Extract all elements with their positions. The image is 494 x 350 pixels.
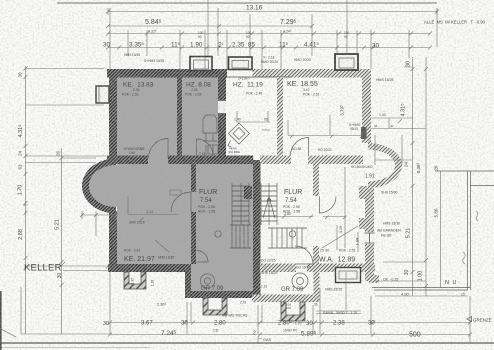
chimney box 1	[190, 57, 212, 71]
border top	[57, 2, 437, 4]
pencil scribble 1	[476, 211, 478, 221]
door arc KE18	[291, 138, 309, 156]
sump circle annex-left	[200, 274, 214, 288]
door arc to annex-left	[197, 251, 209, 263]
wall west upper	[109, 77, 117, 160]
border bottom faint	[0, 347, 150, 349]
wall annex-left west	[185, 272, 191, 298]
dim top line 4	[106, 46, 432, 50]
wall top north right house	[253, 69, 372, 78]
room GR 7.09 left gray fill	[191, 264, 254, 292]
interior thin lines KE18 dim	[288, 115, 364, 138]
stairs right house lower	[268, 228, 307, 248]
wall east lower right house	[365, 188, 374, 281]
wall party lower	[253, 160, 261, 298]
page edge left	[0, 291, 2, 350]
wall mid horizontal west segment	[107, 156, 148, 165]
dim horizontals right	[371, 67, 468, 296]
newel circle left	[215, 231, 221, 237]
wall south corridor segment	[260, 264, 296, 273]
tank diamond HZ 11.19	[228, 123, 250, 147]
newel circle right	[289, 231, 295, 237]
WA interior dims	[322, 167, 358, 310]
room FLUR/KE 21.97 gray fill	[117, 156, 254, 264]
dim horizontals left	[21, 105, 110, 334]
border bottom	[0, 342, 494, 344]
NU top line east	[435, 170, 494, 172]
dim vertical right 2	[424, 57, 428, 296]
pencil scribble 2	[463, 252, 466, 264]
stairs left house upper	[232, 183, 249, 225]
dim vertical left 1	[24, 66, 105, 334]
right bay wall ring	[368, 143, 402, 188]
wall niche WA east 1	[359, 186, 367, 199]
wall annex-right east	[314, 272, 320, 302]
right rotated dims	[338, 61, 439, 281]
wall west lower	[109, 211, 117, 266]
wall interior HZ11/KE18 right house	[277, 77, 283, 156]
wall south right house	[307, 264, 375, 273]
light shaft below annex-right	[281, 302, 305, 321]
window well box right of WA	[336, 268, 361, 283]
NU bottom double line	[372, 288, 470, 291]
wall stub SE corner	[369, 275, 379, 283]
dim bottom line 2	[108, 333, 472, 337]
light shaft below annex-left	[203, 298, 227, 315]
wall south-west	[108, 264, 191, 272]
dim vertical right 1	[411, 57, 415, 296]
light shaft below SW wall	[124, 272, 146, 289]
left bay interior gray	[89, 165, 143, 207]
HZ11 interior lines	[262, 129, 270, 131]
dim connector verticals top	[110, 8, 437, 69]
sump circle annex-right	[292, 273, 308, 289]
stairs left house lower	[230, 225, 251, 248]
window niche west wall	[96, 86, 109, 103]
NU terrace east boundary double line	[468, 171, 471, 290]
door arc to annex-right	[295, 246, 313, 264]
room labels	[24, 81, 457, 293]
wall interior WA west lower	[313, 246, 319, 264]
niche party wall hz	[244, 186, 252, 199]
wall mid horizontal right house west	[260, 156, 291, 165]
window break east wall	[365, 232, 375, 244]
room KE 13.83 + HZ 8.08 gray fill	[117, 77, 218, 156]
dim vertical left 2	[60, 148, 64, 334]
wall party upper	[218, 77, 226, 160]
right small labels	[325, 113, 492, 323]
wall interior WA west upper	[313, 164, 319, 196]
bottom dimension texts	[131, 259, 421, 343]
door arc HZ8	[197, 139, 214, 156]
left bay dim ticks	[80, 211, 118, 236]
NU inner top line	[470, 185, 494, 187]
party wall door gap	[218, 100, 226, 114]
dim top line 1	[106, 8, 439, 15]
wall annex-left south	[185, 291, 260, 298]
door arc KE13 to flur	[149, 139, 169, 159]
luft vent opening lines	[226, 69, 292, 77]
wall annex-right south	[252, 295, 320, 303]
dim vertical right 3	[440, 171, 442, 288]
dim bottom line 1	[108, 321, 472, 325]
wall east upper right house	[362, 77, 371, 143]
crease bottom-left	[0, 329, 16, 338]
dim bottom connectors	[110, 272, 470, 343]
left bay wall ring	[82, 159, 116, 214]
top dimension texts	[103, 5, 486, 83]
wall interior KE/HZ left house	[177, 77, 182, 156]
interior thin lines KE21	[128, 196, 178, 252]
kanal lines	[316, 311, 361, 314]
wall interior flur left house lower	[191, 212, 196, 264]
gas line	[258, 336, 262, 344]
dim top line 3	[106, 32, 432, 36]
wall niche WA east 2	[359, 218, 367, 229]
left rotated dims	[17, 72, 109, 327]
dark niche on east wall KE18	[361, 127, 367, 139]
door arc flur-WA	[320, 197, 337, 214]
wall mid horizontal center segment	[168, 156, 253, 165]
wall interior flur left house upper	[191, 164, 196, 192]
diamond dim line	[236, 111, 270, 122]
stairs right house upper	[261, 183, 277, 225]
wall top north	[107, 69, 227, 78]
plan tiny labels	[124, 147, 332, 225]
chimney box 2	[229, 57, 253, 70]
wall mid horizontal east segment	[308, 156, 363, 165]
chimney box 3	[335, 54, 358, 70]
section line right	[346, 0, 348, 54]
dim top line 2	[106, 24, 314, 28]
boiler HZ 8.08	[203, 115, 218, 155]
niche on flur wall	[170, 190, 181, 195]
section line left	[207, 0, 209, 56]
door arc left flur	[171, 192, 191, 212]
right bay dim ticks	[375, 118, 412, 165]
